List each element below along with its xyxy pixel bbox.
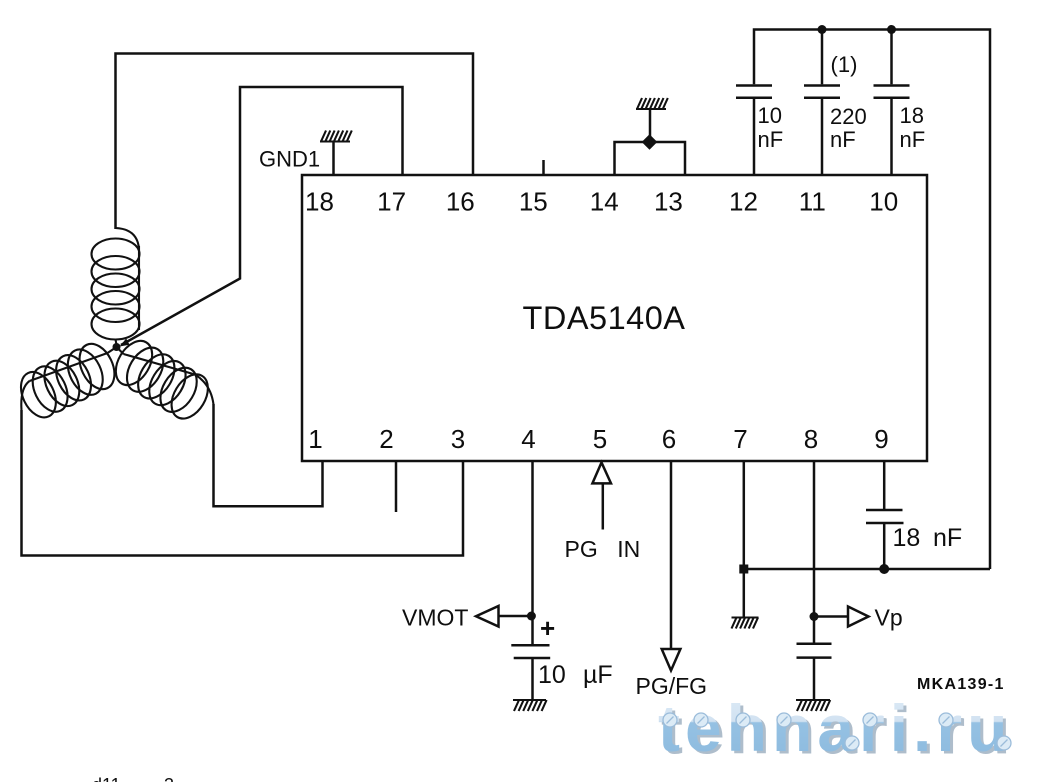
svg-text:nF: nF (830, 127, 856, 152)
svg-text:3: 3 (451, 424, 465, 454)
svg-text:18: 18 (900, 103, 924, 128)
pin 7 wire to ground (743, 461, 746, 618)
svg-text:VMOT: VMOT (402, 605, 468, 631)
svg-text:d11: d11 (92, 775, 121, 782)
pin 4 wire (531, 461, 534, 644)
svg-text:17: 17 (377, 187, 406, 217)
capacitor C1 10 nF (pin 12) (736, 86, 772, 176)
capacitor C4 18 nF (pin 9) (866, 461, 904, 569)
PG/FG arrow (open triangle down) (662, 649, 681, 671)
svg-text:3: 3 (164, 775, 174, 782)
bottom-right bus wire (744, 568, 990, 571)
svg-text:220: 220 (830, 104, 867, 129)
ground above pins 13-14 (636, 98, 668, 142)
svg-text:1: 1 (308, 424, 322, 454)
svg-text:GND1: GND1 (259, 147, 320, 172)
svg-text:+: + (540, 613, 555, 643)
PG IN arrow (pin 5, open triangle up) (592, 463, 611, 484)
svg-text:10: 10 (538, 661, 566, 689)
star node junction (113, 343, 121, 351)
junction at Vp tap (810, 612, 819, 621)
capacitor C2 220 nF (pin 11) (804, 30, 840, 176)
wire to Vp arrow (814, 615, 848, 618)
junction node on bracket (642, 134, 658, 150)
svg-text:nF: nF (900, 127, 926, 152)
svg-text:10: 10 (869, 187, 898, 217)
svg-text:nF: nF (933, 524, 962, 552)
svg-text:6: 6 (662, 424, 676, 454)
wire to VMOT arrow (499, 615, 532, 618)
svg-text:10: 10 (758, 103, 782, 128)
square junction pin7 on bus (739, 565, 748, 574)
ground at pin 8 cap (796, 700, 830, 711)
pin 2 stub (n.c.) (395, 461, 398, 512)
capacitor C6 10 uF polarized (pin 4) (511, 613, 555, 700)
VMOT arrow (open triangle) (476, 606, 499, 627)
svg-text:16: 16 (446, 187, 475, 217)
capacitor C3 18 nF (pin 10) (874, 30, 910, 176)
ground at pin 4 cap (513, 700, 547, 711)
svg-text:9: 9 (874, 424, 888, 454)
svg-text:tehnari.ru: tehnari.ru (658, 691, 1012, 765)
svg-text:8: 8 (804, 424, 818, 454)
wire pin16 to top winding (116, 54, 474, 230)
pin 15 stub (542, 160, 545, 175)
PG IN wire (602, 483, 605, 529)
svg-text:(1): (1) (831, 52, 858, 77)
wire bracket pins 14-13 (615, 142, 686, 176)
pin 6 wire (670, 461, 673, 649)
svg-text:nF: nF (758, 127, 784, 152)
watermark tehnari.ru (658, 691, 1015, 768)
wire pin17 to star point (diagonal) (121, 87, 403, 345)
motor winding L1 (top) (92, 228, 140, 347)
svg-text:12: 12 (729, 187, 758, 217)
wire right winding to pin 1 (214, 404, 323, 506)
svg-text:15: 15 (519, 187, 548, 217)
svg-text:14: 14 (590, 187, 619, 217)
junction C4 on bus (879, 564, 889, 574)
pin 8 wire (813, 461, 816, 643)
svg-text:PG: PG (565, 536, 598, 562)
junction on top wire at C3 (887, 25, 896, 34)
ground GND1 symbol (320, 131, 352, 177)
svg-text:5: 5 (593, 424, 607, 454)
Vp arrow (open triangle) (848, 607, 869, 627)
svg-text:IN: IN (617, 536, 640, 562)
arrowhead at star point (120, 339, 130, 347)
junction on top wire at C2 (818, 25, 827, 34)
IC U1 TDA5140A body (302, 175, 927, 461)
svg-text:Vp: Vp (875, 605, 903, 631)
motor winding L2 (left) (14, 338, 121, 423)
svg-text:2: 2 (379, 424, 393, 454)
capacitor C5 (pin 8) (797, 644, 832, 700)
svg-text:4: 4 (521, 424, 535, 454)
svg-text:7: 7 (733, 424, 747, 454)
wire left winding to pin 3 (22, 410, 464, 556)
svg-text:µF: µF (583, 661, 613, 689)
ground at pin 7 (732, 618, 759, 629)
svg-text:TDA5140A: TDA5140A (523, 300, 686, 336)
motor winding L3 (right) (108, 334, 215, 425)
svg-text:11: 11 (799, 187, 826, 217)
top supply wire (754, 30, 990, 570)
junction at VMOT tap (527, 612, 536, 621)
svg-text:18: 18 (305, 187, 334, 217)
svg-text:13: 13 (654, 187, 683, 217)
svg-text:18: 18 (893, 524, 921, 552)
